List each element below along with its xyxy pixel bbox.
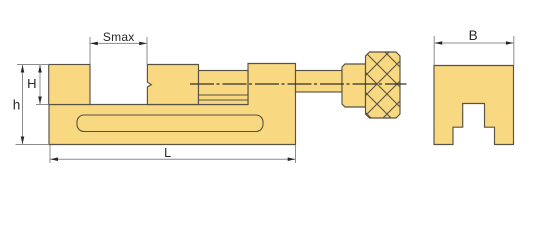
svg-text:h: h bbox=[13, 98, 21, 113]
vise base with rear bracket bbox=[49, 64, 296, 145]
Smax extension line right bbox=[146, 37, 148, 64]
B extension line right bbox=[513, 36, 515, 65]
L extension line left bbox=[49, 145, 51, 163]
svg-text:Smax: Smax bbox=[103, 30, 135, 44]
knob neck bbox=[342, 64, 366, 107]
dimension H line bbox=[39, 65, 41, 104]
dimension Smax line bbox=[90, 42, 146, 44]
extension line top left (for h and H) bbox=[17, 64, 49, 66]
fixed jaw bbox=[49, 65, 90, 105]
dimension B line bbox=[435, 42, 514, 44]
Smax extension line left bbox=[89, 37, 91, 64]
dimension h line bbox=[22, 65, 24, 144]
sleeve line lower bbox=[199, 99, 249, 101]
moving jaw with V-notch bbox=[147, 65, 198, 105]
knurled knob bbox=[366, 52, 401, 118]
dimension L line bbox=[51, 158, 296, 160]
screw centerline bbox=[190, 83, 407, 85]
svg-text:B: B bbox=[469, 28, 478, 43]
nut sleeve bbox=[199, 71, 249, 105]
svg-text:H: H bbox=[27, 76, 36, 91]
screw shaft bbox=[296, 71, 343, 93]
sleeve line upper bbox=[199, 94, 249, 96]
extension line mid left (for H bottom) bbox=[36, 104, 49, 106]
extension line bottom left (for h bottom) bbox=[16, 144, 50, 146]
B extension line left bbox=[433, 36, 435, 65]
L extension line right bbox=[295, 145, 297, 163]
end view block with stepped T-slot bbox=[434, 66, 514, 145]
base slot bbox=[77, 115, 263, 132]
svg-text:L: L bbox=[164, 146, 171, 160]
knurling cross-hatch bbox=[352, 9, 412, 159]
